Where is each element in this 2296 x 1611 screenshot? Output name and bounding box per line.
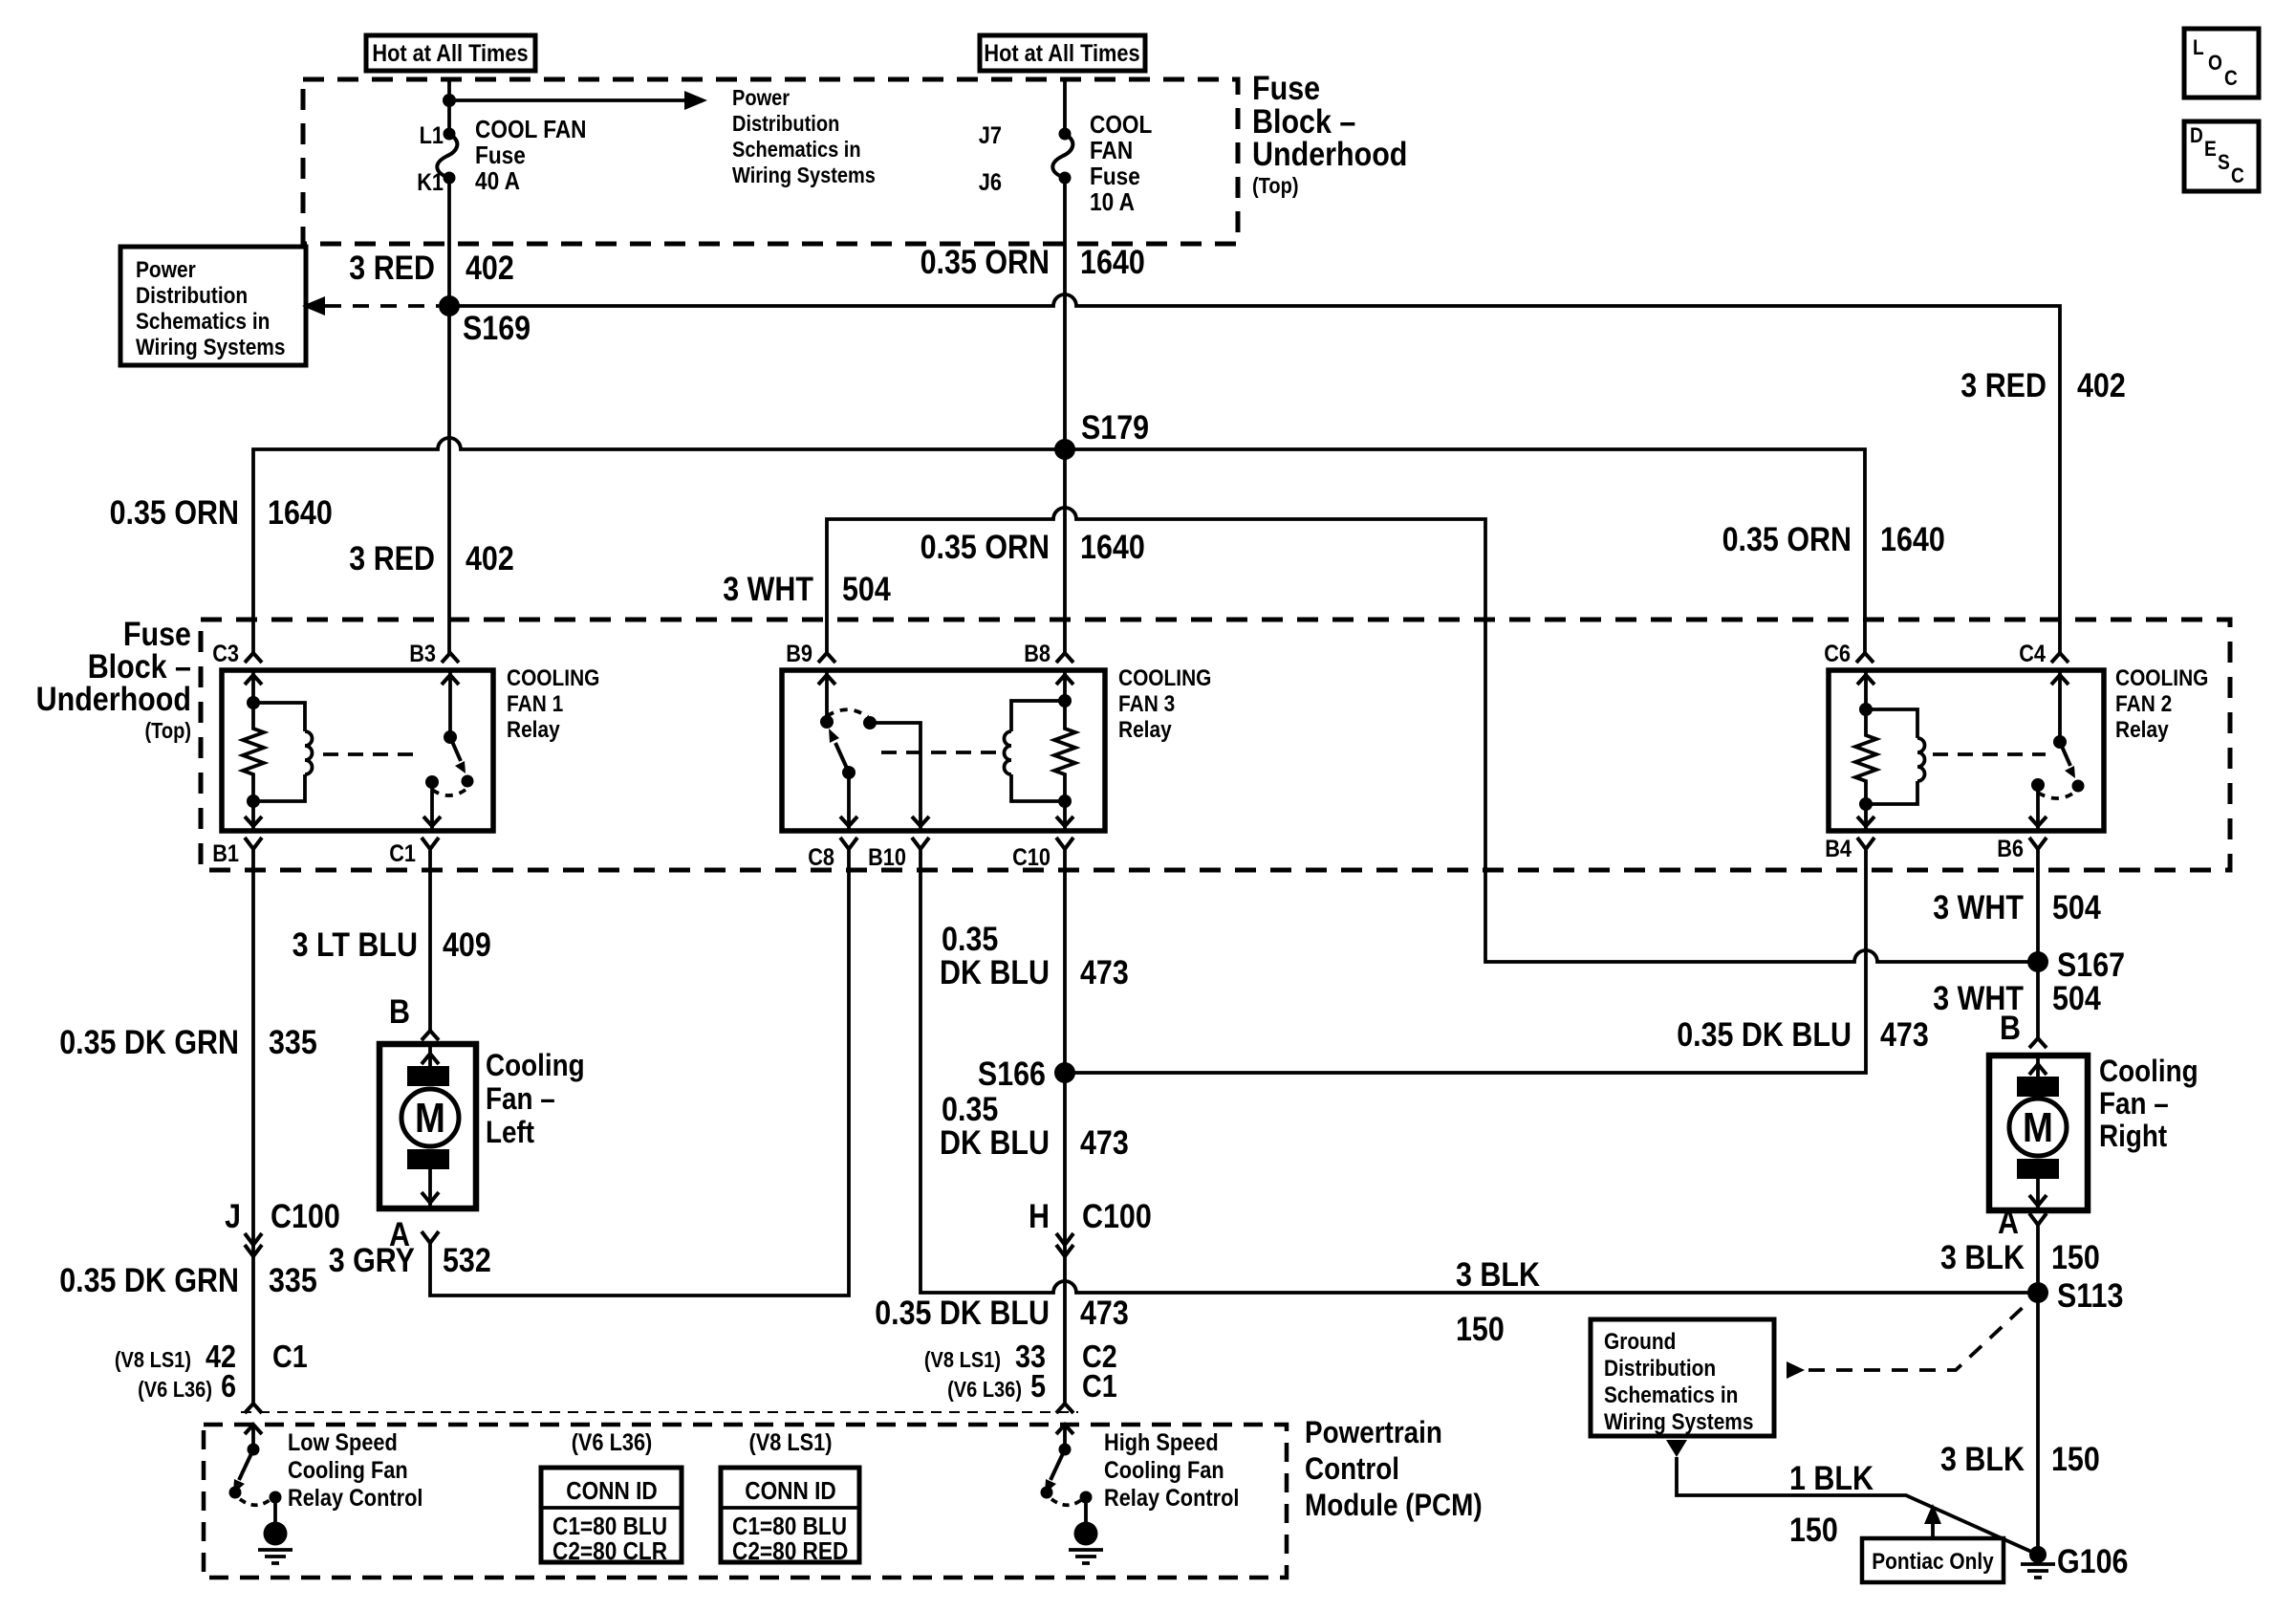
svg-text:150: 150 <box>1789 1512 1838 1549</box>
svg-text:(V8 LS1): (V8 LS1) <box>749 1429 833 1456</box>
switch: Low Speed Cooling Fan Relay Control <box>229 1425 282 1505</box>
svg-text:(V6 L36): (V6 L36) <box>947 1377 1022 1402</box>
svg-text:Underhood: Underhood <box>1252 136 1407 173</box>
fuse F2: COOL FAN Fuse 10 A <box>979 79 1153 216</box>
svg-text:CONN ID: CONN ID <box>745 1476 836 1505</box>
wire: arrow to Power Distribution Schematics (right) <box>449 91 707 110</box>
svg-text:6: 6 <box>221 1368 236 1404</box>
wire: battery feed to COOL FAN fuse 40A <box>447 79 451 135</box>
svg-text:Cooling Fan: Cooling Fan <box>1104 1457 1224 1484</box>
wire S179 horizontal: C3 to C6, hop over RED wire at x470 <box>253 438 1865 654</box>
svg-text:(Top): (Top) <box>145 718 192 743</box>
svg-text:Cooling: Cooling <box>486 1048 585 1082</box>
svg-text:402: 402 <box>2077 367 2126 404</box>
svg-text:473: 473 <box>1080 954 1129 991</box>
wire S179 down to B8 <box>1063 449 1067 654</box>
svg-text:Hot at All Times: Hot at All Times <box>984 40 1139 67</box>
svg-text:3 RED: 3 RED <box>349 250 435 287</box>
svg-text:J: J <box>225 1198 241 1235</box>
wire S113 down to G106 (3 BLK 150) <box>2036 1293 2040 1555</box>
text Power Distribution Schematics in Wiring Systems (top) <box>732 85 876 187</box>
svg-text:S: S <box>2218 150 2230 174</box>
terminal B3 <box>409 641 459 667</box>
node S113 <box>2027 1277 2123 1315</box>
svg-text:C6: C6 <box>1824 641 1851 667</box>
Power Distribution Schematics box (left) <box>120 247 306 365</box>
terminal C6 <box>1824 641 1874 667</box>
Ground Distribution Schematics box <box>1591 1319 1774 1436</box>
svg-text:0.35 DK GRN: 0.35 DK GRN <box>59 1262 239 1299</box>
wire C10 down to PCM (0.35 DK BLU 473) <box>1063 849 1067 1404</box>
svg-text:E: E <box>2204 137 2217 161</box>
svg-text:1640: 1640 <box>1880 521 1945 558</box>
svg-text:Fuse: Fuse <box>1252 70 1320 107</box>
svg-text:M: M <box>415 1095 445 1142</box>
svg-text:0.35 ORN: 0.35 ORN <box>110 494 239 532</box>
label 3 BLK 150 (above S113) <box>1940 1239 2100 1276</box>
svg-text:B6: B6 <box>1997 836 2024 862</box>
CONN ID table (V8 LS1) <box>721 1429 859 1565</box>
svg-text:Fuse: Fuse <box>1090 162 1140 190</box>
svg-text:B: B <box>389 993 410 1031</box>
svg-text:B3: B3 <box>409 641 436 667</box>
svg-text:DK BLU: DK BLU <box>940 1124 1050 1162</box>
svg-text:Fuse: Fuse <box>475 141 526 169</box>
svg-text:150: 150 <box>2051 1239 2100 1276</box>
terminal A (fan right) <box>1998 1204 2047 1241</box>
label 3 BLK / 150 (mid run) <box>1456 1256 1540 1348</box>
terminal B10 <box>868 838 929 871</box>
relay 1 dashed actuation line <box>323 752 422 756</box>
svg-text:0.35 DK GRN: 0.35 DK GRN <box>59 1024 239 1061</box>
terminal C4 <box>2019 641 2069 667</box>
svg-text:COOL: COOL <box>1090 110 1152 139</box>
relay: COOLING FAN 2 Relay <box>1829 670 2104 831</box>
svg-text:3 WHT: 3 WHT <box>1933 889 2024 926</box>
thin dashed PCM connector line <box>241 1411 1078 1413</box>
svg-text:504: 504 <box>2052 980 2101 1017</box>
svg-text:0.35 ORN: 0.35 ORN <box>921 529 1050 566</box>
svg-text:504: 504 <box>842 571 891 608</box>
svg-text:S167: S167 <box>2057 947 2125 984</box>
motor M2: Cooling Fan Right <box>1989 1056 2088 1210</box>
wire S167 to fan right B (3 WHT 504) <box>2036 962 2040 1038</box>
label Cooling Fan - Right <box>2099 1054 2199 1153</box>
svg-text:5: 5 <box>1030 1368 1046 1404</box>
svg-text:C2=80 RED: C2=80 RED <box>732 1536 848 1565</box>
svg-text:C3: C3 <box>212 641 239 667</box>
label Fuse Block - Underhood (Top) top right <box>1252 70 1407 198</box>
svg-text:3 RED: 3 RED <box>1960 367 2047 404</box>
node S179 <box>1054 409 1149 460</box>
terminal chevron at PCM (low speed) <box>245 1404 262 1413</box>
svg-text:Distribution: Distribution <box>732 111 839 136</box>
svg-text:Distribution: Distribution <box>1604 1356 1716 1382</box>
svg-text:0.35: 0.35 <box>942 921 998 958</box>
wire fan right A down to S113 (3 BLK 150) <box>2036 1225 2040 1293</box>
label 3 WHT 504 (above S167) <box>1933 889 2101 926</box>
wire from fuse 10A down to S179 (0.35 ORN 1640) <box>1063 178 1067 449</box>
svg-text:C100: C100 <box>1082 1198 1152 1235</box>
svg-text:Powertrain: Powertrain <box>1305 1415 1442 1449</box>
svg-text:Cooling: Cooling <box>2099 1054 2199 1088</box>
label 0.35 DK GRN 335 (upper) <box>59 1024 317 1061</box>
svg-text:Relay: Relay <box>2115 717 2169 743</box>
svg-text:Wiring Systems: Wiring Systems <box>1604 1409 1754 1435</box>
svg-text:C4: C4 <box>2019 641 2046 667</box>
ground at high speed switch <box>1069 1497 1103 1563</box>
svg-text:J7: J7 <box>979 122 1002 149</box>
svg-text:473: 473 <box>1080 1295 1129 1332</box>
wire C1 to cooling fan left (3 LT BLU 409) <box>428 849 432 1031</box>
svg-text:D: D <box>2190 123 2203 147</box>
svg-text:1640: 1640 <box>1080 244 1145 281</box>
node: junction for power distribution arrow <box>443 94 456 107</box>
wire S169 to right then down to C4 (3 RED 402), hop over ORN wire <box>449 294 2060 654</box>
svg-text:Right: Right <box>2099 1119 2167 1153</box>
PCM pin labels middle: (V8 LS1) 33 C2 / (V6 L36) 5 C1 <box>924 1339 1117 1404</box>
label 0.35 ORN 1640 (above B8) <box>921 529 1145 566</box>
svg-text:532: 532 <box>443 1242 491 1279</box>
svg-text:Fan –: Fan – <box>486 1081 555 1116</box>
svg-text:C2=80 CLR: C2=80 CLR <box>552 1536 667 1565</box>
svg-text:C1: C1 <box>1082 1368 1117 1404</box>
svg-text:Fan –: Fan – <box>2099 1086 2169 1121</box>
svg-text:(V6 L36): (V6 L36) <box>138 1377 212 1402</box>
svg-text:409: 409 <box>443 926 491 964</box>
label High Speed Cooling Fan Relay Control <box>1104 1429 1239 1512</box>
terminal B8 <box>1024 641 1073 667</box>
terminal B (fan left) <box>389 993 439 1040</box>
svg-text:O: O <box>2208 51 2222 75</box>
svg-text:473: 473 <box>1080 1124 1129 1162</box>
svg-text:H: H <box>1029 1198 1050 1235</box>
svg-text:B8: B8 <box>1024 641 1051 667</box>
svg-text:High Speed: High Speed <box>1104 1429 1219 1456</box>
svg-text:402: 402 <box>466 540 514 577</box>
svg-text:K1: K1 <box>417 169 444 196</box>
svg-text:Distribution: Distribution <box>136 283 248 309</box>
svg-text:Schematics in: Schematics in <box>1604 1382 1738 1408</box>
relay 3 coil branch and resistor (right) <box>1005 670 1075 831</box>
svg-text:3 BLK: 3 BLK <box>1456 1256 1540 1294</box>
Hot at All Times box 2 <box>980 35 1145 71</box>
svg-text:(Top): (Top) <box>1252 173 1299 198</box>
label 3 RED 402 (middle, above B3) <box>349 540 514 577</box>
relay 2 coil branch and resistor <box>1855 670 1925 831</box>
relay 1 coil branch and resistor <box>243 670 313 831</box>
svg-text:Relay: Relay <box>507 717 560 743</box>
svg-text:Low Speed: Low Speed <box>288 1429 398 1456</box>
svg-text:S166: S166 <box>978 1056 1046 1093</box>
svg-text:FAN 2: FAN 2 <box>2115 691 2172 717</box>
terminal B6 <box>1997 836 2047 862</box>
motor M1: Cooling Fan Left <box>379 1044 476 1208</box>
label 0.35 DK GRN 335 (lower) <box>59 1262 317 1299</box>
svg-text:Module (PCM): Module (PCM) <box>1305 1488 1483 1522</box>
svg-text:C10: C10 <box>1012 844 1051 871</box>
relay 3 dashed actuation line <box>881 751 998 754</box>
wire from fuse 40A down to S169 <box>447 178 451 306</box>
svg-text:Cooling Fan: Cooling Fan <box>288 1457 408 1484</box>
svg-text:Relay Control: Relay Control <box>1104 1485 1239 1512</box>
svg-text:CONN ID: CONN ID <box>566 1476 658 1505</box>
label 0.35 DK BLU 473 (above PCM) <box>875 1295 1129 1332</box>
svg-text:3 BLK: 3 BLK <box>1940 1239 2025 1276</box>
label 0.35 ORN 1640 (right) <box>1722 521 1945 558</box>
terminal C8 <box>808 838 857 871</box>
svg-text:L: L <box>2193 35 2204 59</box>
relay 3 switch (left) <box>818 670 929 831</box>
relay: COOLING FAN 3 Relay <box>782 670 1105 831</box>
label 3 WHT 504 (below S167) <box>1933 980 2101 1017</box>
wire S166 right and up to B4 (0.35 DK BLU 473) <box>1065 849 1866 1073</box>
svg-text:DK BLU: DK BLU <box>940 954 1050 991</box>
wire B6 down to S167 (3 WHT 504) <box>2036 849 2040 962</box>
svg-text:Ground: Ground <box>1604 1329 1676 1355</box>
wire B9 feed (3 WHT 504): from B9 up, right, down to S167 <box>827 508 2038 962</box>
svg-text:(V8 LS1): (V8 LS1) <box>115 1347 191 1372</box>
svg-text:150: 150 <box>2051 1441 2100 1478</box>
svg-text:3 GRY: 3 GRY <box>329 1242 415 1279</box>
svg-text:Wiring Systems: Wiring Systems <box>732 163 876 187</box>
svg-text:473: 473 <box>1880 1016 1929 1054</box>
terminal C1 <box>389 838 439 867</box>
svg-text:COOLING: COOLING <box>507 665 599 691</box>
terminal B9 <box>786 641 835 667</box>
svg-text:Power: Power <box>732 85 790 110</box>
label Low Speed Cooling Fan Relay Control <box>288 1429 422 1512</box>
Hot at All Times box 1 <box>366 35 535 71</box>
label 3 BLK 150 (below S113) <box>1940 1441 2100 1478</box>
relay 2 switch <box>2029 670 2085 831</box>
svg-text:FAN 1: FAN 1 <box>507 691 563 717</box>
svg-text:Control: Control <box>1305 1451 1399 1486</box>
dashed reference arrow from S113 to Ground Distribution box <box>1787 1302 2028 1379</box>
svg-text:C1: C1 <box>389 840 416 867</box>
svg-text:FAN: FAN <box>1090 136 1133 164</box>
relay 1 switch <box>423 670 474 831</box>
ground at low speed switch <box>258 1497 292 1563</box>
wire B10 to S113 (3 BLK 150), hop over DK BLU wire <box>921 849 2038 1293</box>
svg-text:C8: C8 <box>808 844 834 871</box>
svg-text:0.35 DK BLU: 0.35 DK BLU <box>875 1295 1050 1332</box>
svg-text:B10: B10 <box>868 844 906 871</box>
connector C100 H (double chevron) <box>1029 1198 1152 1256</box>
label Powertrain Control Module (PCM) <box>1305 1415 1483 1522</box>
fuse F1: COOL FAN Fuse 40 A <box>417 115 586 196</box>
terminal C3 <box>212 641 262 667</box>
PCM dashed box <box>204 1425 1287 1578</box>
svg-text:1640: 1640 <box>268 494 333 532</box>
svg-text:S179: S179 <box>1081 409 1149 446</box>
svg-text:1 BLK: 1 BLK <box>1789 1460 1874 1497</box>
svg-text:3 BLK: 3 BLK <box>1940 1441 2025 1478</box>
label 0.35 / DK BLU 473 (above S166) <box>940 921 1129 991</box>
svg-text:1640: 1640 <box>1080 529 1145 566</box>
svg-text:0.35 ORN: 0.35 ORN <box>1722 521 1852 558</box>
svg-text:COOL FAN: COOL FAN <box>475 115 587 143</box>
label Fuse Block - Underhood (Top) left <box>36 616 191 743</box>
terminal C10 <box>1012 838 1073 871</box>
svg-text:C100: C100 <box>271 1198 340 1235</box>
svg-text:(V8 LS1): (V8 LS1) <box>924 1347 1001 1372</box>
PCM pin labels left: (V8 LS1) 42 C1 / (V6 L36) 6 <box>115 1339 308 1404</box>
CONN ID table (V6 L36) <box>541 1429 682 1565</box>
dashed arrow from S169 to left box <box>302 296 439 316</box>
wire B1 to PCM (0.35 DK GRN 335) <box>251 849 255 1404</box>
svg-text:B: B <box>2000 1010 2021 1047</box>
svg-text:B4: B4 <box>1825 836 1852 862</box>
svg-text:0.35: 0.35 <box>942 1091 998 1128</box>
svg-text:Schematics in: Schematics in <box>732 137 861 162</box>
label 0.35 / DK BLU 473 (below S166) <box>940 1091 1129 1162</box>
svg-text:0.35 DK BLU: 0.35 DK BLU <box>1677 1016 1852 1054</box>
svg-text:FAN 3: FAN 3 <box>1118 691 1175 717</box>
label 1 BLK / 150 <box>1789 1460 1874 1549</box>
svg-text:40 A: 40 A <box>475 166 520 195</box>
Fuse Block - Underhood (middle) dashed box <box>201 620 2230 870</box>
svg-text:Hot at All Times: Hot at All Times <box>372 40 528 67</box>
svg-text:Wiring Systems: Wiring Systems <box>136 335 286 360</box>
Fuse Block Underhood (top) dashed box <box>303 79 1238 244</box>
label 0.35 ORN 1640 (left) <box>110 494 333 532</box>
label 3 RED 402 (below fuse 40A) <box>349 250 514 287</box>
svg-text:335: 335 <box>269 1262 317 1299</box>
wire S169 down to B3 (3 RED 402) <box>447 306 451 654</box>
label 3 RED 402 (right) <box>1960 367 2126 404</box>
svg-text:Pontiac Only: Pontiac Only <box>1872 1549 1994 1575</box>
svg-text:L1: L1 <box>420 122 444 149</box>
svg-text:C: C <box>2231 163 2244 187</box>
arrow below ground box and 1 BLK 150 wire <box>1666 1440 2038 1555</box>
ground G106 <box>2021 1543 2129 1580</box>
svg-text:B1: B1 <box>212 840 239 867</box>
svg-text:3 WHT: 3 WHT <box>723 571 813 608</box>
svg-text:(V6 L36): (V6 L36) <box>572 1429 653 1456</box>
svg-text:402: 402 <box>466 250 514 287</box>
label 0.35 DK BLU 473 (right, above line) <box>1677 1016 1929 1054</box>
Pontiac Only box with arrow <box>1862 1504 2004 1582</box>
svg-text:A: A <box>1998 1204 2019 1241</box>
svg-text:3 LT BLU: 3 LT BLU <box>292 926 418 964</box>
terminal A (fan left) <box>389 1216 439 1253</box>
LOC box (top right) <box>2184 29 2259 98</box>
terminal B1 <box>212 838 262 867</box>
label 3 GRY 532 <box>329 1242 491 1279</box>
svg-text:Relay: Relay <box>1118 717 1172 743</box>
terminal B4 <box>1825 836 1874 862</box>
svg-text:3 RED: 3 RED <box>349 540 435 577</box>
switch: High Speed Cooling Fan Relay Control <box>1041 1425 1093 1505</box>
svg-text:G106: G106 <box>2057 1543 2129 1580</box>
svg-text:504: 504 <box>2052 889 2101 926</box>
svg-text:Relay Control: Relay Control <box>288 1485 422 1512</box>
svg-text:COOLING: COOLING <box>1118 665 1211 691</box>
svg-text:S169: S169 <box>463 310 531 347</box>
relay: COOLING FAN 1 Relay <box>222 670 493 831</box>
svg-text:0.35 ORN: 0.35 ORN <box>921 244 1050 281</box>
DESC box (top right) <box>2184 121 2259 191</box>
wire fan left A to C8 (3 GRY 532) <box>430 849 849 1295</box>
svg-text:335: 335 <box>269 1024 317 1061</box>
svg-text:C: C <box>2224 66 2238 90</box>
connector C100 J (double chevron) <box>225 1198 340 1256</box>
svg-text:150: 150 <box>1456 1311 1505 1348</box>
relay 2 dashed actuation line <box>1933 752 2046 756</box>
svg-text:Left: Left <box>486 1115 534 1149</box>
svg-text:B9: B9 <box>786 641 812 667</box>
label 0.35 ORN 1640 (below fuse 10A) <box>921 244 1145 281</box>
svg-text:Schematics in: Schematics in <box>136 309 270 335</box>
svg-text:Power: Power <box>136 257 196 283</box>
terminal B (fan right) <box>2000 1010 2047 1048</box>
svg-text:M: M <box>2023 1104 2053 1151</box>
label 3 LT BLU 409 <box>292 926 491 964</box>
terminal chevron at PCM (high speed) <box>1056 1404 1073 1413</box>
svg-text:J6: J6 <box>979 169 1002 196</box>
label Cooling Fan - Left <box>486 1048 585 1149</box>
svg-text:Underhood: Underhood <box>36 681 191 718</box>
svg-text:10 A: 10 A <box>1090 187 1135 216</box>
node S169 <box>439 295 531 347</box>
label 3 WHT 504 (above B9) <box>723 571 891 608</box>
node S166 <box>978 1056 1075 1093</box>
node S167 <box>2027 947 2125 984</box>
svg-text:COOLING: COOLING <box>2115 665 2208 691</box>
svg-text:S113: S113 <box>2057 1277 2123 1315</box>
svg-text:C1: C1 <box>272 1339 308 1374</box>
